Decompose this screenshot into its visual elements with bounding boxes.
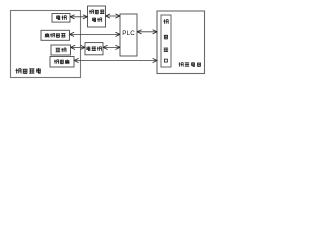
svg-text:PLC: PLC bbox=[122, 30, 135, 37]
